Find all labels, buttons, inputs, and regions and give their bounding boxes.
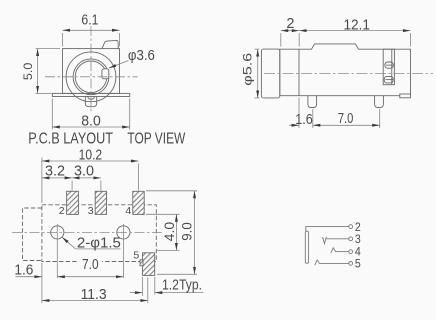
svg-text:1.6: 1.6	[295, 112, 313, 128]
svg-text:3: 3	[355, 234, 361, 246]
svg-text:4: 4	[355, 247, 361, 259]
svg-text:7.0: 7.0	[82, 257, 99, 273]
svg-text:7.0: 7.0	[338, 111, 354, 127]
svg-text:3.2: 3.2	[45, 164, 65, 180]
svg-text:11.3: 11.3	[81, 287, 107, 303]
svg-text:12.1: 12.1	[343, 17, 370, 33]
svg-text:5.0: 5.0	[23, 63, 35, 80]
svg-text:2-φ1.5: 2-φ1.5	[77, 235, 121, 251]
svg-text:φ5.6: φ5.6	[242, 53, 254, 86]
svg-text:1.6: 1.6	[14, 262, 33, 278]
svg-text:3.0: 3.0	[74, 164, 94, 180]
svg-text:8.0: 8.0	[81, 114, 101, 130]
svg-text:5: 5	[355, 259, 361, 271]
svg-text:1.2Typ.: 1.2Typ.	[162, 278, 202, 294]
svg-text:5: 5	[133, 249, 139, 261]
svg-text:9.0: 9.0	[180, 222, 195, 241]
svg-text:6.1: 6.1	[81, 13, 98, 29]
svg-text:4.0: 4.0	[162, 222, 177, 242]
svg-text:2: 2	[286, 16, 294, 32]
svg-text:4: 4	[125, 205, 131, 217]
svg-text:2: 2	[59, 205, 65, 217]
svg-text:3: 3	[88, 205, 94, 217]
svg-text:P.C.B LAYOUT: P.C.B LAYOUT	[28, 130, 113, 147]
svg-text:10.2: 10.2	[79, 147, 103, 163]
svg-text:2: 2	[355, 222, 361, 234]
svg-text:TOP VIEW: TOP VIEW	[127, 130, 185, 147]
svg-text:φ3.6: φ3.6	[128, 48, 155, 64]
